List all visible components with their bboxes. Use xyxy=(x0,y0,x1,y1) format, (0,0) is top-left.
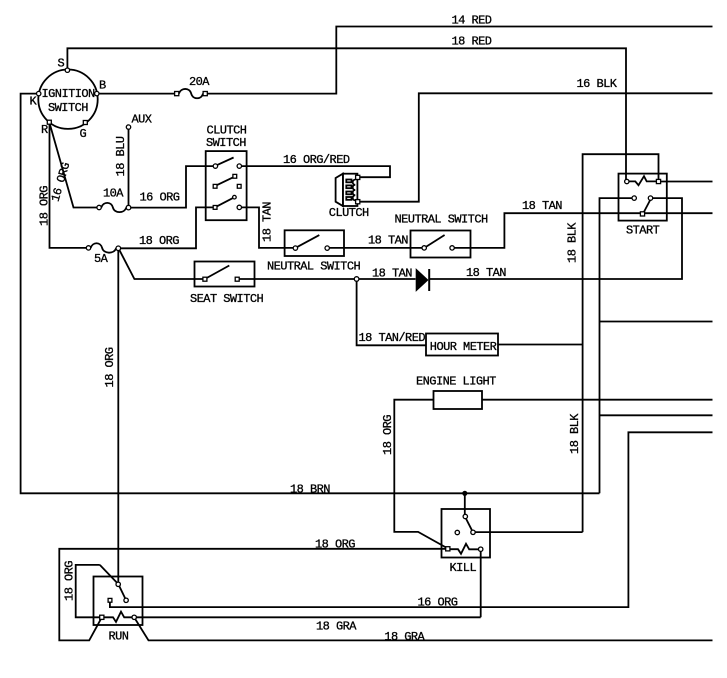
run relay top contact xyxy=(116,582,120,586)
svg-text:CLUTCH: CLUTCH xyxy=(329,206,369,220)
wire 18 BRN: ignition K left, down left edge, across bottom middle xyxy=(21,94,600,494)
wire 18 TAN: right neutral switch right contact up and across to right edge xyxy=(454,213,712,248)
wire KILL coil right down to 18 GRA xyxy=(480,551,482,617)
wire 18 TAN/RED: junction down to hour meter xyxy=(357,279,426,345)
seat switch S4 left contact xyxy=(203,277,207,281)
wire START switch left contact to x599.5 vertical down to 18 BRN xyxy=(600,198,635,493)
svg-text:18 ORG: 18 ORG xyxy=(63,561,77,601)
start relay switch left contact xyxy=(632,196,636,200)
neutral switch S3 right contact xyxy=(450,246,454,250)
neutral switch S2 blade xyxy=(297,235,319,247)
svg-text:18 GRA: 18 GRA xyxy=(316,619,357,633)
wire 18 TAN: seat switch right to diode xyxy=(237,278,415,280)
wire 18 ORG: 5A junction down to RUN relay top contact xyxy=(117,251,119,583)
svg-text:AUX: AUX xyxy=(132,113,152,127)
ignition terminal K xyxy=(37,91,41,95)
svg-text:10A: 10A xyxy=(103,187,124,201)
svg-text:18 TAN: 18 TAN xyxy=(372,266,412,280)
wire 16 ORG: 10A junction right, up to clutch switch row1 left contact xyxy=(129,166,214,208)
start relay switch right contact xyxy=(648,196,652,200)
ignition terminal S xyxy=(65,68,69,72)
svg-text:18 ORG: 18 ORG xyxy=(381,415,395,455)
svg-text:SEAT SWITCH: SEAT SWITCH xyxy=(190,292,264,306)
svg-text:G: G xyxy=(80,127,87,141)
node junction 10A/16ORG/18BLU xyxy=(126,205,131,210)
svg-text:R: R xyxy=(41,123,48,137)
svg-text:NEUTRAL SWITCH: NEUTRAL SWITCH xyxy=(267,259,360,273)
seat switch S4 right contact xyxy=(235,277,239,281)
wire 16 BLK: clutch coil bottom terminal right, up, across to right edge xyxy=(360,93,713,201)
wire stub START coil right to right edge xyxy=(659,181,713,183)
svg-text:ENGINE LIGHT: ENGINE LIGHT xyxy=(416,374,496,388)
clutch switch pole 2 blade end xyxy=(233,174,237,178)
svg-text:18 BLK: 18 BLK xyxy=(566,222,580,263)
wire 18 ORG: 5A junction right, up to clutch switch row3 left contact xyxy=(121,207,214,248)
clutch switch pole 1 blade xyxy=(217,158,233,165)
svg-text:S: S xyxy=(58,57,65,71)
fuse F3 5A element xyxy=(91,243,116,252)
wire 18 TAN: diode cathode right, up at x682 to START switch right contact xyxy=(430,198,683,279)
wire 18 TAN: clutch switch row3 right contact down to left neutral switch xyxy=(242,207,294,248)
kill relay switch blade xyxy=(466,519,472,531)
wire engine light left, down, to KILL coil left diagonal xyxy=(394,400,446,548)
neutral switch S3 body (right) xyxy=(411,231,471,258)
wire diagonal 5A junction to seat switch left contact xyxy=(120,250,203,279)
kill relay right contact xyxy=(471,530,475,534)
neutral switch S2 left contact xyxy=(293,246,297,250)
clutch switch pole 2 blade xyxy=(217,177,233,185)
neutral switch S2 right contact xyxy=(325,246,329,250)
clutch coil connector body xyxy=(343,174,358,206)
ignition terminal G xyxy=(83,121,87,125)
svg-text:B: B xyxy=(99,79,106,93)
svg-text:16 ORG/RED: 16 ORG/RED xyxy=(283,153,350,167)
start relay body xyxy=(619,174,667,221)
kill relay coil element xyxy=(450,544,479,554)
svg-text:SWITCH: SWITCH xyxy=(48,101,88,115)
run relay switch blade xyxy=(119,586,125,598)
kill relay unconnected contact xyxy=(455,530,459,534)
seat switch S4 body xyxy=(195,262,255,287)
node junction 5A/18ORG xyxy=(116,246,121,251)
wire 16 ORG: RUN middle contact down, across, up at x628.4, to right edge xyxy=(110,432,713,607)
wire 18 BLU: 10A junction up to AUX terminal xyxy=(128,129,130,205)
engine light body xyxy=(434,391,483,409)
neutral switch S2 body (left) xyxy=(285,230,344,256)
svg-text:16 BLK: 16 BLK xyxy=(577,77,618,91)
wire KILL switch contact right to 18 BLK vertical xyxy=(474,531,583,533)
clutch coil scalloped edge xyxy=(353,180,356,201)
wire 14 RED: 20A fuse right, up at x336, across top to right edge xyxy=(205,27,712,94)
clutch switch pole 3 right contact xyxy=(237,205,241,209)
svg-text:14 RED: 14 RED xyxy=(452,13,492,27)
svg-text:18 BRN: 18 BRN xyxy=(290,483,330,497)
svg-text:KILL: KILL xyxy=(450,561,477,575)
kill relay coil left terminal xyxy=(446,547,450,551)
node junction 18 BRN / KILL feed xyxy=(462,491,467,496)
run relay middle contact xyxy=(108,598,112,602)
svg-text:18 TAN: 18 TAN xyxy=(522,199,562,213)
wire 16 ORG/RED: clutch switch row1 right contact to clutch coil top terminal xyxy=(242,166,391,177)
wire stub y321.5 to right edge xyxy=(600,321,713,323)
neutral switch S3 left contact xyxy=(422,246,426,250)
run relay coil element xyxy=(104,612,133,622)
svg-text:HOUR METER: HOUR METER xyxy=(430,340,497,354)
start relay coil right terminal xyxy=(656,179,660,183)
clutch coil pin slots xyxy=(346,180,351,200)
ignition switch body xyxy=(38,70,97,129)
seat switch S4 blade xyxy=(207,266,229,278)
start relay coil element xyxy=(629,176,656,185)
clutch switch pole 1 left contact xyxy=(213,164,217,168)
wire engine light right to right edge xyxy=(482,399,713,401)
node AUX terminal xyxy=(126,125,130,129)
kill relay top contact xyxy=(463,514,467,518)
wire 16 ORG diagonal from ignition R to 10A fuse xyxy=(49,122,97,207)
run relay coil right terminal xyxy=(132,615,136,619)
svg-text:18 TAN: 18 TAN xyxy=(368,234,408,248)
clutch switch pole 2 right contact xyxy=(237,184,241,188)
start relay coil left terminal xyxy=(625,179,629,183)
fuse F1 20A element xyxy=(179,89,203,98)
svg-text:18 BLK: 18 BLK xyxy=(568,413,582,454)
svg-text:IGNITION: IGNITION xyxy=(42,87,96,101)
svg-text:16 ORG: 16 ORG xyxy=(140,191,180,205)
fuse F2 10A element xyxy=(101,203,126,212)
kill relay body xyxy=(442,509,491,558)
clutch switch S1 body xyxy=(206,151,247,220)
wire between neutral switches xyxy=(329,247,422,249)
wire 18 RED: ignition S up, across top, down to START coil xyxy=(67,48,626,181)
fuse F2 left terminal xyxy=(97,205,101,209)
run relay coil left terminal xyxy=(100,615,104,619)
svg-text:18 ORG: 18 ORG xyxy=(103,347,117,387)
neutral switch S3 blade xyxy=(426,235,445,247)
wire from ignition B to 20A fuse xyxy=(96,93,177,95)
svg-text:18 TAN: 18 TAN xyxy=(466,266,506,280)
svg-text:18 GRA: 18 GRA xyxy=(384,630,425,644)
start relay switch blade xyxy=(644,200,650,212)
clutch switch pole 3 blade end xyxy=(233,195,237,199)
svg-text:18 ORG: 18 ORG xyxy=(38,186,52,226)
ignition terminal R xyxy=(47,120,51,124)
svg-text:18 RED: 18 RED xyxy=(452,35,492,49)
diode D1 xyxy=(416,269,429,291)
svg-text:18 ORG: 18 ORG xyxy=(315,538,355,552)
clutch switch pole 3 blade xyxy=(217,198,233,206)
wire 18 ORG: long run from RUN outer corner to KILL coil left xyxy=(59,549,445,641)
svg-text:NEUTRAL SWITCH: NEUTRAL SWITCH xyxy=(395,212,488,226)
fuse F1 right terminal xyxy=(203,92,207,96)
clutch coil connector shell xyxy=(336,174,343,206)
fuse F3 left terminal xyxy=(86,246,90,250)
svg-text:18 ORG: 18 ORG xyxy=(139,234,179,248)
start relay switch common terminal xyxy=(640,212,644,216)
svg-text:5A: 5A xyxy=(94,252,109,266)
svg-text:START: START xyxy=(626,223,660,237)
wire 18 GRA: RUN coil right diagonal down, across bottom to right edge xyxy=(136,620,713,641)
clutch switch pole 2 left contact xyxy=(213,184,217,188)
clutch coil top terminal xyxy=(356,175,360,179)
svg-text:18 TAN: 18 TAN xyxy=(261,202,275,242)
clutch switch pole 1 right contact xyxy=(237,164,241,168)
wire 18 ORG: ignition R down to 5A fuse xyxy=(50,124,87,247)
wire hour meter right to 18 BLK vertical xyxy=(498,344,583,346)
hour meter body xyxy=(426,334,498,356)
fuse F1 left terminal xyxy=(175,92,179,96)
run relay body xyxy=(94,577,143,626)
clutch coil bottom terminal xyxy=(356,200,360,204)
svg-text:18 TAN/RED: 18 TAN/RED xyxy=(359,331,426,345)
kill relay coil right terminal xyxy=(479,547,483,551)
svg-text:18 BLU: 18 BLU xyxy=(114,136,128,176)
svg-text:20A: 20A xyxy=(189,75,210,89)
wire 18 BLK: START coil right up, left, down to KILL switch level xyxy=(583,154,659,532)
wire KILL top contact feed from 18 BRN junction xyxy=(464,493,466,514)
clutch switch pole 3 left contact xyxy=(213,206,217,210)
svg-text:RUN: RUN xyxy=(109,629,129,643)
ignition terminal B xyxy=(95,91,99,95)
wire RUN inner path to top contact and coil left xyxy=(76,565,117,617)
node junction seat/hourmeter xyxy=(354,277,359,282)
wire stub y415.3 to right edge xyxy=(600,414,713,416)
wire 18 GRA: RUN coil right across to KILL coil vertical xyxy=(136,616,480,618)
run relay blade end contact xyxy=(124,598,128,602)
svg-text:SWITCH: SWITCH xyxy=(206,136,246,150)
svg-text:16 ORG: 16 ORG xyxy=(418,596,458,610)
